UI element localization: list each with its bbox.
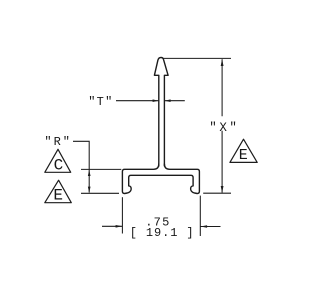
extension line bottom right <box>199 196 201 236</box>
svg-text:"R": "R" <box>44 135 72 149</box>
svg-text:E: E <box>53 187 63 205</box>
flag triangle E left <box>45 180 72 203</box>
profile dart barb stem <box>154 58 168 167</box>
arrowhead left dim up <box>88 170 91 176</box>
svg-text:E: E <box>239 147 248 164</box>
extension line bottom left <box>121 197 123 233</box>
extension line left lower <box>81 192 119 194</box>
leader R <box>73 141 89 192</box>
arrowhead X top <box>221 59 224 66</box>
arrowhead left dim down <box>88 187 91 193</box>
flag triangle E right <box>230 139 257 162</box>
svg-text:[ 19.1 ]: [ 19.1 ] <box>130 226 195 240</box>
dimension line X vertical <box>221 59 223 192</box>
arrowhead X bottom <box>221 186 224 193</box>
svg-text:C: C <box>54 157 64 175</box>
svg-text:"T": "T" <box>88 95 113 109</box>
dimension T left line and arrow <box>116 100 158 102</box>
dimension .75 right line and arrow <box>200 226 220 228</box>
svg-text:"X": "X" <box>209 121 239 135</box>
dimension T right line and arrow <box>165 100 185 102</box>
flag triangle C <box>45 149 71 172</box>
profile flange and hooked legs <box>122 164 199 194</box>
extension line bottom-right (X dimension) <box>203 192 231 194</box>
dimension .75 left line and arrow <box>102 225 122 227</box>
extension line left upper <box>81 168 121 170</box>
extension line top (X dimension) <box>163 57 231 59</box>
